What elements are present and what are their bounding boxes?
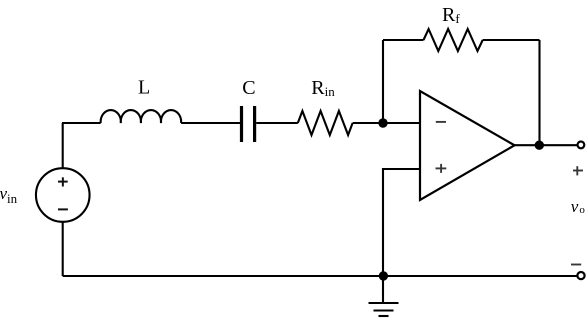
svg-text:C: C: [242, 77, 255, 99]
svg-text:L: L: [138, 77, 150, 99]
svg-text:Rf: Rf: [442, 4, 460, 26]
svg-text:vo: vo: [571, 197, 586, 216]
svg-text:Rin: Rin: [311, 77, 335, 99]
svg-text:vin: vin: [0, 184, 18, 206]
